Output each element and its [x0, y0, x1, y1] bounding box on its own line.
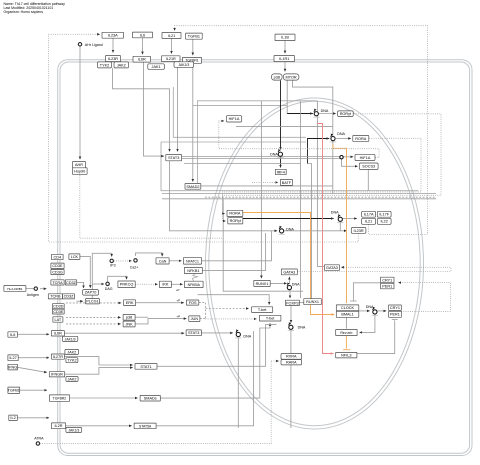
box Rev-erb	[336, 330, 357, 336]
svg-text:IL6: IL6	[10, 333, 15, 337]
box HLA-DRB1	[4, 286, 26, 292]
box p38 MAPK	[123, 314, 135, 320]
wire DNA6 to Rev-erb	[360, 314, 375, 332]
svg-text:p38: p38	[274, 75, 280, 79]
box IL21R	[162, 56, 181, 62]
ligand Antigen	[27, 287, 39, 297]
STAT3 line anchor node	[340, 156, 343, 159]
wire BMAL1 to DNA6	[359, 310, 370, 312]
box BATF	[281, 179, 293, 185]
svg-text:RORA: RORA	[229, 212, 240, 216]
box TYK2 b	[66, 358, 78, 363]
wire DNA3 to IL23R	[284, 230, 347, 232]
box HIF1A nuclear	[355, 154, 375, 160]
wire DAG to PRKCQ	[108, 276, 127, 282]
svg-text:AHr Ligand: AHr Ligand	[85, 43, 103, 47]
wire vertical x261	[260, 101, 262, 278]
svg-text:IL6R: IL6R	[54, 332, 62, 336]
wire CRY1/PER1 inhibit CLOCK	[353, 283, 380, 301]
wire horizontal y163	[184, 163, 301, 165]
svg-text:PER1: PER1	[390, 313, 400, 317]
box JAK2 b	[65, 349, 79, 354]
box Hsp90	[73, 168, 88, 175]
svg-text:Organism: Homo sapiens: Organism: Homo sapiens	[4, 10, 44, 14]
box TGFBR2	[49, 395, 69, 401]
svg-text:NFKB1: NFKB1	[187, 269, 199, 273]
box IL6R	[133, 56, 151, 62]
inhibition bar on PER1	[392, 318, 398, 320]
svg-text:IRF4: IRF4	[277, 170, 285, 174]
svg-text:JAK1: JAK1	[152, 65, 161, 69]
box STAT1	[135, 364, 157, 370]
long elbow connectors upper nucleus	[161, 87, 418, 191]
wire DNA to IL17 group	[343, 218, 357, 220]
wire MTOR elbow to DNA site	[286, 80, 288, 114]
box STAT5A	[134, 423, 156, 429]
wire nucleus horizontal y291	[223, 199, 303, 291]
wire NFIL3 inhibit PER1	[357, 320, 395, 353]
svg-text:ATRA: ATRA	[34, 437, 44, 441]
wire band 1	[162, 193, 436, 195]
wire RORgt to DNA site	[243, 218, 334, 220]
box FOXP3	[285, 300, 299, 305]
box PLCG1	[85, 299, 99, 304]
wire IL6 to IL6R lower	[18, 333, 50, 335]
inhibition bar on CLOCK	[350, 300, 357, 302]
svg-text:TGFBR2: TGFBR2	[53, 396, 66, 400]
box RUNX1 partner	[304, 299, 322, 305]
box IL27	[8, 355, 18, 361]
svg-text:NFIL3: NFIL3	[341, 354, 351, 358]
wire anchor to HIF1A	[343, 156, 353, 158]
svg-text:CD3Z: CD3Z	[64, 295, 75, 299]
wire RORA to BMAL1 orange	[243, 213, 334, 315]
box NFKBIA	[184, 281, 203, 287]
svg-text:T-bet: T-bet	[266, 317, 276, 321]
svg-text:CD3D: CD3D	[53, 305, 64, 309]
ligand AHR-ligand	[78, 43, 102, 47]
wire DNA anchor to IRF4	[280, 156, 282, 167]
wire TGFB1 to TGFBR1	[192, 39, 194, 55]
svg-text:DNA: DNA	[331, 211, 339, 215]
wire NFKB1 out	[202, 233, 265, 270]
svg-text:STAT3: STAT3	[168, 156, 179, 160]
box LAT	[53, 317, 63, 322]
dashed AHR to nucleus	[80, 175, 223, 238]
svg-text:ZAP70: ZAP70	[85, 291, 97, 295]
box IL23A	[102, 32, 124, 38]
wire to T-bet top	[198, 295, 270, 305]
wire STAT3 out lower	[181, 158, 341, 160]
box RARA	[281, 360, 302, 365]
wire STAT3 to DNA8	[201, 332, 233, 334]
svg-text:SMAD2: SMAD2	[186, 185, 199, 189]
wire IFNG to IFNGR	[18, 367, 47, 372]
box JAK1/3	[174, 62, 194, 68]
svg-text:CaN: CaN	[159, 259, 167, 263]
box TCRA	[51, 280, 64, 285]
wire LCK to ZAP70	[80, 257, 90, 288]
svg-text:NFKBIA: NFKBIA	[188, 283, 201, 287]
box IL6	[133, 32, 153, 38]
svg-text:IL1R1: IL1R1	[279, 57, 289, 61]
DNA site GATA3	[286, 282, 300, 291]
box ERK	[124, 300, 136, 306]
box GATA3	[281, 269, 297, 275]
box TGFB1	[186, 33, 203, 39]
wire STAT1 out	[157, 325, 276, 367]
box TYK2	[98, 62, 112, 68]
wire Rev-erb inhibit NFIL3 orange	[345, 336, 347, 349]
box T-bet	[252, 307, 273, 313]
box CRY1 protein	[381, 277, 395, 283]
wire DNA to RORgt	[319, 113, 336, 115]
svg-text:DNA: DNA	[366, 305, 374, 309]
DNA site RORA	[330, 132, 346, 142]
wire band 2	[162, 198, 436, 200]
box IL17A	[362, 211, 376, 217]
wire ZAP70 to PLCG1	[77, 300, 83, 302]
svg-text:JAK2: JAK2	[117, 63, 126, 67]
box CD3Z	[65, 280, 76, 285]
svg-text:IL2: IL2	[10, 416, 15, 420]
svg-text:JNK: JNK	[126, 322, 134, 326]
box TGFB1 lower	[8, 387, 20, 393]
wire SOCS3 down	[367, 170, 369, 191]
svg-text:CD3Z: CD3Z	[66, 281, 77, 285]
box LCK	[69, 254, 80, 260]
box JAK1	[148, 64, 165, 70]
svg-text:IKK: IKK	[162, 283, 169, 287]
svg-text:IL6: IL6	[140, 33, 145, 37]
svg-text:IL27: IL27	[9, 356, 16, 360]
wire IL1B to IL1R1	[284, 41, 286, 54]
wire DNA to RORA	[336, 137, 351, 139]
svg-text:AHR: AHR	[75, 163, 83, 167]
svg-text:JAK1/3: JAK1/3	[68, 428, 79, 432]
box NFKB1	[184, 267, 202, 273]
box IKK	[159, 281, 171, 287]
box PER1 protein	[381, 283, 395, 289]
box JAK2	[114, 62, 129, 68]
wire to T-bet lower	[206, 318, 257, 320]
wire IL27R to STAT1	[65, 357, 133, 365]
DNA site IL17	[331, 211, 344, 223]
svg-text:STAT3: STAT3	[188, 331, 199, 335]
dotted RORgt recycle loop	[223, 114, 442, 214]
svg-text:JAK1/3: JAK1/3	[65, 337, 76, 341]
wire FOXP3 to DNA7	[290, 306, 292, 323]
wire IL23A to IL23R	[112, 38, 114, 52]
box IL1B	[275, 34, 295, 40]
svg-text:Hsp90: Hsp90	[74, 169, 85, 173]
wire STAT3 out upper	[181, 156, 341, 158]
svg-text:PLCG1: PLCG1	[86, 300, 98, 304]
wire DNA6 to CRY1	[377, 310, 386, 312]
wire TGFBR1 to SMAD2	[192, 63, 194, 181]
svg-text:TCRA: TCRA	[52, 281, 63, 285]
box IRF4	[275, 169, 286, 174]
svg-text:IL6R: IL6R	[138, 58, 146, 62]
wire IL1R1 to p38/MTOR	[284, 62, 286, 72]
box RORA	[353, 136, 369, 142]
svg-text:Ca2+: Ca2+	[130, 265, 139, 269]
svg-text:MTOR: MTOR	[286, 75, 297, 79]
svg-text:TCRB: TCRB	[50, 295, 61, 299]
box IL21	[162, 33, 181, 39]
svg-text:FOS: FOS	[189, 301, 197, 305]
wire p38 join	[135, 316, 148, 318]
wire PRKCQ to IKK	[135, 283, 157, 285]
svg-text:CRY1: CRY1	[382, 278, 392, 282]
wire DNA2 to CLOCK orange	[333, 144, 347, 303]
svg-text:PRKCQ: PRKCQ	[120, 283, 134, 287]
wire anchor to SOCS3	[342, 159, 358, 166]
box JAK2 c	[66, 377, 78, 382]
wire RUNX1 up	[308, 164, 312, 299]
svg-text:RUNX1: RUNX1	[256, 282, 269, 286]
box CD3E	[51, 263, 64, 268]
svg-text:JAK2: JAK2	[67, 377, 76, 381]
wire IL2 to IL2R	[17, 417, 49, 419]
svg-text:RORγt: RORγt	[340, 112, 352, 116]
ligand ATRA	[34, 437, 44, 446]
box RORgt	[338, 111, 354, 117]
box JAK1/3 c	[66, 427, 82, 432]
wire SMAD2 out	[201, 185, 333, 187]
box IL17F	[377, 211, 391, 217]
box CD4	[52, 254, 64, 259]
wire ERK to FOS	[136, 302, 184, 304]
svg-text:TYK2: TYK2	[67, 359, 77, 363]
svg-text:DAG: DAG	[105, 287, 113, 291]
box ZAP70	[83, 290, 99, 296]
dotted BATF input	[252, 181, 278, 183]
box BMAL1	[336, 311, 359, 317]
svg-text:IL23R: IL23R	[354, 229, 364, 233]
svg-text:LCK: LCK	[71, 255, 79, 259]
wire to DNA3	[272, 230, 278, 232]
wire PLCG1 to IP3	[92, 253, 111, 298]
wire IL2R to STAT5A	[66, 425, 132, 427]
svg-text:HIF1A: HIF1A	[229, 117, 240, 121]
box SMADs	[140, 395, 160, 401]
svg-text:Rev-erb: Rev-erb	[340, 331, 352, 335]
svg-text:IL21: IL21	[168, 34, 175, 38]
box NFATC1	[183, 258, 201, 264]
box CD3D	[52, 304, 64, 309]
wire LAT to JNK	[66, 323, 121, 325]
svg-text:STAT1: STAT1	[140, 365, 151, 369]
svg-text:JAK1/3: JAK1/3	[178, 63, 189, 67]
svg-text:GATA3: GATA3	[283, 270, 295, 274]
wire MTOR right-down	[293, 80, 333, 193]
svg-text:IP3: IP3	[110, 264, 115, 268]
box CaN	[156, 258, 169, 264]
svg-text:BATF: BATF	[282, 181, 292, 185]
wire LAT to ERK	[66, 302, 121, 304]
svg-text:IFNGR: IFNGR	[51, 373, 63, 377]
title block	[4, 2, 66, 14]
dashed IL21 autocrine loop	[175, 26, 428, 235]
box GATA3 protein	[324, 265, 339, 271]
svg-text:CRY1: CRY1	[390, 306, 400, 310]
svg-text:TGFB1: TGFB1	[188, 35, 200, 39]
svg-text:IL23A: IL23A	[108, 34, 118, 38]
wire DNA down to GATA3	[317, 101, 324, 266]
box RORA protein	[227, 210, 243, 216]
box p38	[272, 74, 283, 80]
svg-text:HLA-DRB1: HLA-DRB1	[7, 287, 23, 291]
wire FOS/JUN vertical	[205, 303, 207, 319]
box IL22	[377, 218, 391, 224]
box IL1R1	[274, 56, 295, 62]
wire PLCG1 to DAG	[92, 283, 104, 285]
svg-text:HIF1A: HIF1A	[360, 156, 371, 160]
wire IL6 to IL6R	[142, 38, 144, 55]
svg-text:RORγt: RORγt	[230, 219, 242, 223]
svg-text:DNA: DNA	[292, 282, 300, 286]
svg-text:IL21: IL21	[365, 220, 372, 224]
wire JAK1/3 to STAT3	[177, 67, 179, 151]
box JUN	[189, 316, 200, 322]
box SOCS3	[359, 163, 378, 169]
box JNK	[123, 321, 135, 327]
svg-text:LAT: LAT	[55, 318, 62, 322]
svg-text:DNA: DNA	[321, 109, 329, 113]
box PER1	[389, 311, 402, 317]
svg-text:IL17F: IL17F	[379, 213, 389, 217]
wire DNA5 join	[339, 222, 341, 231]
wire TGFBR2 to SMADs	[70, 397, 138, 399]
wire JNK to JUN	[135, 319, 186, 324]
svg-text:+P: +P	[176, 288, 180, 292]
DNA site STAT3 target	[235, 329, 252, 338]
svg-text:DNA: DNA	[337, 132, 345, 136]
svg-text:FOXP3: FOXP3	[286, 301, 298, 305]
box STAT3	[166, 155, 182, 161]
svg-text:IL17A: IL17A	[364, 213, 374, 217]
svg-text:PER1: PER1	[382, 284, 392, 288]
svg-text:IL27R: IL27R	[53, 355, 63, 359]
svg-text:CD3G: CD3G	[52, 270, 63, 274]
svg-text:IL2R: IL2R	[54, 424, 62, 428]
wire NFKB1-NFKBIA zigzag	[192, 274, 197, 281]
svg-text:JAK2: JAK2	[67, 350, 76, 354]
box CRY1	[389, 305, 402, 310]
DNA site RORgt	[313, 109, 329, 118]
box IL6R lower	[51, 331, 64, 336]
box TCRB	[48, 294, 62, 299]
wire RORgt-DNA to NFIL3 red	[317, 124, 333, 354]
svg-text:SOCS3: SOCS3	[362, 165, 375, 169]
box CLOCK	[336, 305, 359, 311]
svg-text:+P: +P	[176, 314, 180, 318]
svg-text:ERK: ERK	[126, 301, 134, 305]
wire into RORgt DNA	[287, 113, 313, 115]
dotted ATRA line	[40, 361, 271, 444]
DNA site FOXP3	[288, 322, 306, 331]
box RUNX1	[254, 280, 270, 286]
svg-text:DNA: DNA	[286, 227, 294, 231]
wire to RARA	[271, 360, 279, 362]
wire IL6R/JAK1 to STAT3	[144, 62, 164, 156]
wire to T-bet upper	[206, 308, 249, 310]
svg-text:+P: +P	[176, 299, 180, 303]
box CD3E b	[52, 309, 64, 314]
box HIF1A	[226, 116, 241, 122]
svg-text:IL22: IL22	[381, 220, 388, 224]
wire DNA8 down	[237, 337, 239, 428]
svg-text:JUN: JUN	[191, 317, 199, 321]
wire AHR-ligand to AHR	[79, 46, 81, 159]
wire p38 to DNA anchor	[280, 80, 282, 149]
box TGFBR1	[183, 57, 202, 63]
box IL2R	[51, 423, 65, 429]
svg-text:DNA: DNA	[270, 153, 278, 157]
svg-text:GATA3: GATA3	[326, 266, 338, 270]
wire antigen to TCR	[40, 288, 46, 290]
svg-text:IL21R: IL21R	[166, 57, 176, 61]
wire IL21 to IL21R	[171, 38, 173, 53]
wire FOS link	[199, 302, 206, 304]
wire TGFB1 to TGFBR2	[20, 389, 47, 391]
box FOS	[186, 300, 198, 305]
svg-text:NFATC1: NFATC1	[186, 259, 199, 263]
wire RUNX1 to RORA-DNA	[308, 139, 330, 164]
box IL2	[9, 415, 17, 421]
svg-text:CLOCK: CLOCK	[341, 306, 355, 310]
box IFNG	[8, 364, 18, 370]
wire band dashed	[205, 196, 436, 198]
wire TYK2/JAK2 to STAT3	[113, 68, 170, 152]
ligand IP3	[110, 259, 116, 267]
wire BMAL1 to Rev-erb	[345, 317, 347, 328]
box SMAD2	[185, 184, 201, 190]
wire STAT3 down to DNA3 feeder	[170, 160, 272, 230]
wire IL6R to STAT3	[65, 332, 185, 334]
wire IFNGR to STAT1	[65, 368, 133, 375]
box RORgt protein	[228, 218, 243, 224]
cell membrane	[58, 60, 472, 456]
wire DNA4 to GATA3	[288, 277, 290, 284]
svg-text:BMAL1: BMAL1	[341, 313, 353, 317]
box PRKCQ	[118, 281, 135, 288]
svg-text:RORA: RORA	[355, 137, 366, 141]
dotted RORA recycle loop	[223, 138, 422, 221]
svg-text:IL23R: IL23R	[108, 57, 118, 61]
svg-text:TGFB1: TGFB1	[8, 389, 20, 393]
box MTOR	[283, 74, 299, 80]
box NFIL3	[336, 352, 357, 358]
wire CD3Z to ZAP70	[77, 282, 84, 288]
box IL27R	[51, 354, 64, 359]
box IFNGR	[49, 372, 64, 377]
DNA site CRY/PER	[366, 305, 378, 315]
svg-text:SMADs: SMADs	[144, 397, 157, 401]
wire DNA7 down	[290, 330, 292, 428]
wire SMADs out	[161, 323, 271, 398]
wire CaN to NFATC1	[169, 260, 181, 262]
dotted HIF1A loop	[219, 121, 379, 157]
box AHR	[73, 162, 86, 168]
box IL23R gene	[351, 228, 366, 234]
svg-text:RUNX1: RUNX1	[306, 300, 319, 304]
svg-text:CD3E: CD3E	[52, 264, 63, 268]
wire LAT to p38	[66, 316, 121, 318]
wire IP3 to Ca2+	[114, 260, 132, 262]
svg-text:IFNG: IFNG	[8, 365, 17, 369]
